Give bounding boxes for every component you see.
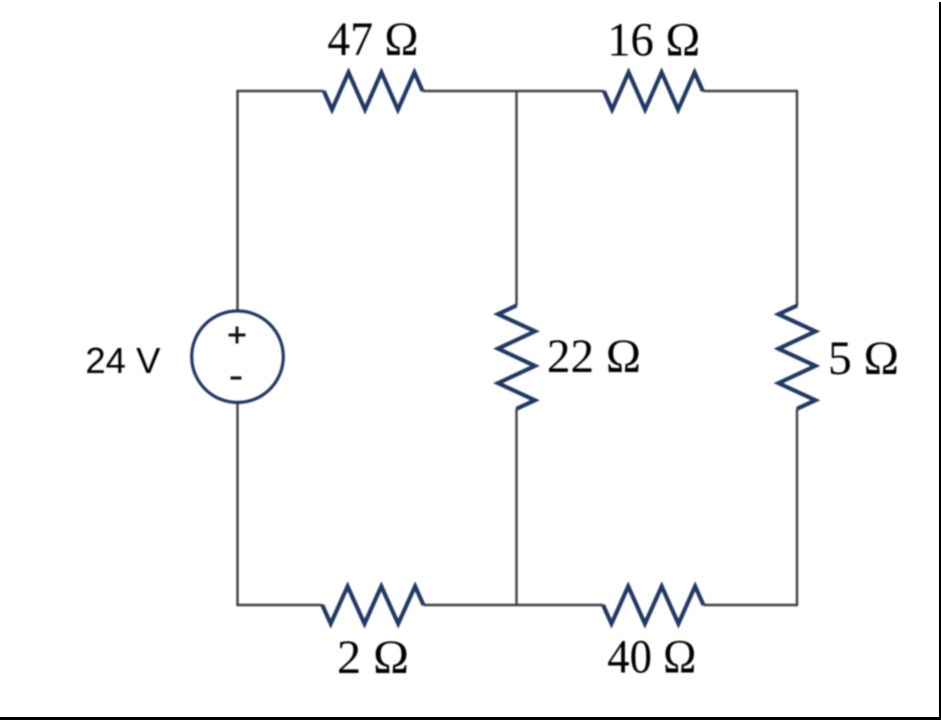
resistor R1 47ohm zigzag [324,72,423,109]
svg-text:40 Ω: 40 Ω [607,631,696,684]
slide border bottom edge [0,717,941,720]
wire middle vertical top (node B to R4) [515,91,517,306]
svg-text:24 V: 24 V [85,340,160,381]
svg-text:5 Ω: 5 Ω [828,332,899,385]
resistor R2 16ohm zigzag [604,72,703,109]
svg-text:47 Ω: 47 Ω [327,13,418,66]
resistor R4 22ohm zigzag [498,306,535,409]
svg-text:16 Ω: 16 Ω [607,14,700,67]
wire top-left corner (node A to R1) [238,91,324,312]
wire top-middle segment (R1 to R2 through node B) [423,90,604,92]
wire top-right corner (R2 to R5) [703,91,797,306]
slide border right edge [939,2,941,720]
svg-text:2 Ω: 2 Ω [337,631,409,684]
voltage source V1 circle [192,311,284,403]
resistor R6 40ohm zigzag [603,586,703,623]
voltage source V1 plus sign [229,327,246,344]
svg-text:22 Ω: 22 Ω [547,330,641,383]
resistor R3 2ohm zigzag [322,586,423,623]
wire bottom-left corner (R3 to source V1) [238,402,323,605]
wire middle vertical bottom (R4 to node C) [515,409,517,605]
voltage source V1 minus sign [231,376,242,379]
resistor R5 5ohm zigzag [779,306,816,409]
wire bottom-middle segment (R6 to R3 through node C) [424,604,604,606]
wire right-bottom corner (R5 to R6) [704,409,798,605]
